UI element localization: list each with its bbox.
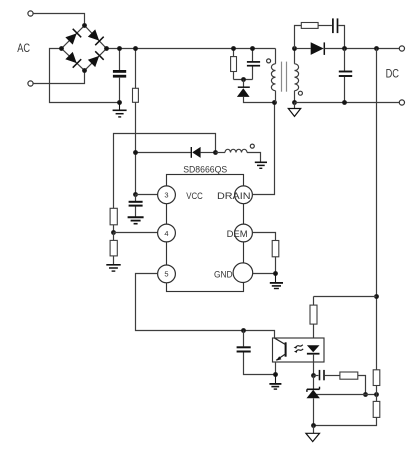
wire opto emitter to ground bbox=[275, 362, 277, 375]
ground GND5 bbox=[270, 274, 283, 289]
diode D8 opto led bbox=[307, 345, 320, 375]
pin 4 bbox=[158, 224, 176, 242]
capacitor C2 vcc bbox=[129, 195, 143, 217]
node emitter ground junction bbox=[273, 372, 278, 377]
transistor U3 tl431 bbox=[307, 376, 320, 426]
node AC input terminal L2 bbox=[28, 81, 33, 86]
node secondary top junction bbox=[292, 46, 297, 51]
wire tl431 ref bbox=[316, 394, 377, 396]
wire tap to pin4 bbox=[114, 232, 158, 234]
resistor R8 led series bbox=[310, 297, 317, 338]
node DC minus terminal bbox=[399, 100, 404, 105]
svg-text:GND: GND bbox=[214, 269, 233, 280]
diode D4 bridge bottom-right bbox=[87, 51, 103, 67]
capacitor C5 output bbox=[339, 49, 352, 103]
resistor R7 sense upper bbox=[373, 370, 380, 395]
opto light arrows bbox=[296, 345, 303, 351]
node led cathode junction bbox=[311, 373, 316, 378]
resistor R9 compensation bbox=[340, 372, 366, 395]
node aux junction bbox=[213, 150, 218, 155]
node clamp join bbox=[241, 77, 246, 82]
wire main input rail bbox=[107, 48, 276, 50]
ground GND6 secondary bbox=[288, 103, 300, 117]
node bridge top junction bbox=[82, 23, 87, 28]
resistor R10 sense lower bbox=[314, 395, 380, 426]
node DC plus terminal bbox=[399, 46, 404, 51]
transformer T1 core bbox=[282, 62, 287, 92]
node C1 top tap bbox=[117, 46, 122, 51]
node fb cap tap bbox=[241, 328, 246, 333]
wire feedback right rail bbox=[376, 49, 378, 370]
ground GND7 bbox=[269, 375, 281, 390]
diode D5 vcc charge bbox=[191, 147, 215, 158]
node tl431 anode junction bbox=[311, 423, 316, 428]
node primary phase dot bbox=[267, 59, 271, 63]
node divider tap bbox=[111, 230, 116, 235]
pin DRAIN bbox=[235, 186, 253, 204]
node snubber join bbox=[342, 46, 347, 51]
diode D1 bridge top-left bbox=[65, 29, 81, 45]
optocoupler U2 box bbox=[273, 338, 325, 362]
svg-text:5: 5 bbox=[164, 270, 168, 279]
ground GND2 bbox=[255, 162, 267, 168]
wire clamp RC join bbox=[234, 79, 253, 81]
svg-text:DRAIN: DRAIN bbox=[217, 190, 251, 201]
node bridge right junction bbox=[104, 46, 109, 51]
node bridge bottom junction bbox=[82, 68, 87, 73]
diode D6 clamp bbox=[237, 80, 275, 103]
resistor R5 clamp bbox=[231, 49, 237, 80]
wire VCC to pin3 bbox=[136, 194, 158, 196]
node comp join bbox=[363, 392, 368, 397]
svg-text:DC: DC bbox=[386, 66, 400, 80]
resistor R6 output snubber bbox=[295, 23, 332, 49]
svg-text:SD8666QS: SD8666QS bbox=[183, 163, 227, 174]
node secondary bottom junction bbox=[292, 100, 297, 105]
node aux phase dot bbox=[250, 144, 254, 148]
wire R4 to gnd junction bbox=[275, 257, 277, 274]
svg-text:AC: AC bbox=[17, 42, 30, 55]
wire output minus rail bbox=[295, 102, 400, 104]
node opto supply tap bbox=[374, 294, 379, 299]
svg-text:VCC: VCC bbox=[186, 190, 203, 201]
wire rail to R8 bbox=[314, 296, 377, 298]
svg-text:3: 3 bbox=[164, 191, 168, 200]
ground GND8 secondary bbox=[306, 426, 320, 442]
node ref rail join bbox=[374, 392, 379, 397]
pin DEM bbox=[235, 224, 253, 242]
node AC input terminal L1 bbox=[28, 11, 33, 16]
resistor R1 startup bbox=[133, 49, 139, 195]
wire AC L1 to bridge top bbox=[33, 14, 84, 26]
resistor R4 dem bbox=[272, 241, 279, 257]
node primary ground junction bbox=[117, 100, 122, 105]
wire bridge minus to ground rail bbox=[50, 49, 120, 103]
pin GND bbox=[233, 263, 253, 283]
svg-text:DEM: DEM bbox=[227, 228, 248, 239]
resistor R2 divider upper bbox=[110, 208, 117, 225]
wire DRAIN to primary bottom bbox=[252, 103, 274, 195]
transformer T1 primary bbox=[271, 49, 275, 103]
node clamp R tap bbox=[231, 46, 236, 51]
wire DEM to R4 bbox=[252, 233, 275, 241]
transformer T1 secondary bbox=[295, 49, 299, 103]
wire aux feedback loop bbox=[114, 134, 216, 233]
node VCC riser junction bbox=[133, 150, 138, 155]
diode D2 bridge top-right bbox=[87, 29, 103, 45]
svg-text:4: 4 bbox=[164, 229, 168, 238]
capacitor C7 compensation bbox=[314, 370, 340, 380]
node clamp C tap bbox=[250, 46, 255, 51]
ground GND3 bbox=[106, 265, 120, 271]
node primary bottom junction bbox=[272, 100, 277, 105]
capacitor C3 clamp bbox=[247, 49, 260, 80]
ground GND1 bbox=[113, 103, 127, 117]
inductor L1 aux winding bbox=[216, 149, 261, 161]
diode D7 output rectifier bbox=[297, 42, 400, 55]
node VCC pin junction bbox=[133, 192, 138, 197]
node IC ground junction bbox=[273, 271, 278, 276]
transistor Q1 opto detector bbox=[275, 338, 286, 360]
resistor R3 divider lower bbox=[110, 233, 117, 265]
capacitor C1 input filter bbox=[113, 49, 126, 103]
pin 5 bbox=[158, 265, 176, 283]
node output plus junction bbox=[374, 46, 379, 51]
node bridge left junction bbox=[59, 46, 64, 51]
pin 3 bbox=[158, 186, 176, 204]
diode D3 bridge bottom-left bbox=[65, 51, 81, 67]
node secondary phase dot bbox=[298, 91, 302, 95]
wire AC L2 to bridge bottom bbox=[33, 71, 84, 84]
capacitor C6 feedback bbox=[237, 331, 276, 375]
wire GND pin to junction bbox=[253, 273, 276, 275]
capacitor C4 output snubber bbox=[333, 18, 345, 48]
node R1 top tap bbox=[133, 46, 138, 51]
wire VCC node to diode bbox=[136, 152, 192, 154]
wire pin5 to opto collector bbox=[136, 274, 275, 339]
node output cap bottom bbox=[342, 100, 347, 105]
diode bridge frame bbox=[62, 26, 107, 71]
op-amp U1 SD8666QS body bbox=[167, 175, 244, 292]
ground GND4 bbox=[128, 217, 144, 223]
